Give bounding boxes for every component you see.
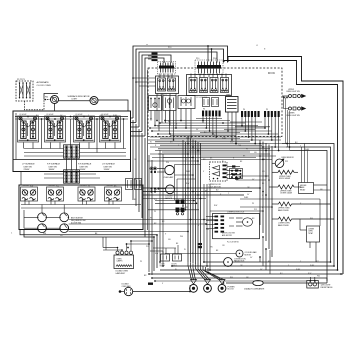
svg-text:L1 H1 H2: L1 H1 H2: [102, 114, 109, 116]
svg-text:BK: BK: [176, 243, 179, 245]
door switch DS1: [150, 250, 163, 252]
svg-text:UNIT SW: UNIT SW: [80, 166, 88, 168]
svg-text:P22: P22: [285, 161, 288, 163]
relay K6: [221, 78, 229, 93]
svg-text:P9: P9: [88, 185, 90, 187]
wire: bottom run 4: [149, 273, 343, 275]
thermal switch TH1: [21, 187, 38, 201]
svg-text:BU: BU: [134, 199, 137, 201]
svg-text:P44: P44: [206, 229, 209, 231]
svg-text:P12: P12: [186, 195, 189, 197]
svg-text:BK: BK: [216, 250, 219, 252]
svg-text:P60: P60: [317, 276, 320, 278]
alternate clock connector (dashed box): [16, 81, 33, 101]
svg-text:P9: P9: [150, 218, 152, 220]
wire: right trunk v4: [286, 147, 331, 262]
svg-text:P44: P44: [230, 277, 233, 279]
svg-text:FAN MOTOR: FAN MOTOR: [234, 260, 245, 263]
lower oven element E3: [272, 218, 279, 220]
relay K4: [200, 78, 208, 93]
svg-text:R-W: R-W: [30, 185, 34, 187]
svg-text:LAMPS: LAMPS: [117, 260, 124, 263]
upper oven lamp M4: [157, 168, 165, 170]
oven selector contact S4: [60, 224, 69, 233]
oven lamp terminals: [116, 251, 119, 254]
svg-text:P12: P12: [56, 185, 59, 187]
wires: selector to center: [69, 219, 215, 221]
svg-text:TOD 250V: TOD 250V: [48, 185, 56, 187]
surface switch enclosure box: [13, 111, 131, 172]
connector P1: [159, 66, 174, 69]
svg-text:P9: P9: [154, 211, 156, 213]
surface indicator light L2: [90, 97, 98, 105]
svg-text:UNIT SW: UNIT SW: [24, 166, 32, 168]
svg-text:P9: P9: [140, 261, 142, 263]
upper cooling fan M5: [160, 188, 166, 190]
component hidden bake relay box: [299, 183, 314, 194]
wire: right staircase outer: [228, 57, 343, 275]
svg-text:BK: BK: [262, 183, 265, 185]
svg-text:P9: P9: [146, 44, 148, 46]
connector pair P7: [176, 200, 180, 205]
svg-text:BAKE 2200W: BAKE 2200W: [278, 224, 289, 227]
svg-text:BLOCK: BLOCK: [228, 289, 235, 291]
wire: top run 1: [133, 46, 228, 118]
wire mesh: mid-right horizontals: [201, 155, 276, 157]
wire: center bundle B verticals: [259, 140, 261, 225]
upper cooling fan connector pins: [150, 187, 152, 189]
surface unit switch SW2 (RF): [45, 116, 66, 142]
svg-text:P1-9: P1-9: [168, 47, 171, 49]
wires: inter-unit verticals: [41, 119, 43, 149]
wire: light switch drops: [285, 98, 287, 144]
svg-text:UNIT SW: UNIT SW: [104, 166, 112, 168]
svg-text:ALTERNATE: ALTERNATE: [37, 81, 50, 84]
bake element E2: [272, 203, 279, 205]
svg-text:P12: P12: [316, 261, 319, 263]
wire: fan motor leads: [120, 291, 124, 293]
power terminal N: [205, 280, 211, 285]
svg-text:GY: GY: [247, 194, 250, 196]
wire: alternate box to indicator light: [25, 100, 51, 110]
oven lamp feed wires: [103, 247, 118, 249]
wire: bundle A extra verticals: [182, 140, 184, 206]
wire: bundle C verticals: [148, 155, 150, 272]
svg-text:K1: K1: [158, 76, 160, 78]
svg-text:CLOCK CONN: CLOCK CONN: [37, 85, 52, 87]
wire: center bundle A verticals: [187, 137, 189, 262]
svg-text:BR: BR: [162, 221, 165, 223]
svg-text:OVEN LIGHT SW: OVEN LIGHT SW: [286, 91, 300, 93]
svg-text:P4: P4: [243, 109, 245, 111]
wire mesh: drops from connectors: [202, 117, 204, 123]
svg-text:P34: P34: [45, 97, 48, 99]
surface unit switch SW1 (LF): [18, 116, 39, 142]
svg-text:P1 P2 P3: P1 P2 P3: [17, 79, 25, 81]
triac Q2: [163, 96, 176, 111]
svg-text:R-W: R-W: [308, 273, 312, 275]
wire: switch box top bus: [15, 116, 128, 118]
wire: top run 5: [145, 58, 164, 136]
svg-text:W: W: [184, 249, 186, 251]
svg-text:1200W: 1200W: [104, 169, 110, 171]
svg-text:R-W: R-W: [230, 142, 234, 144]
wires: TB2 side stubs: [44, 173, 64, 175]
svg-text:BK: BK: [240, 161, 243, 163]
svg-text:1: 1: [11, 233, 13, 235]
oven element E4: [269, 186, 278, 188]
svg-text:L R SURFACE: L R SURFACE: [102, 163, 115, 166]
surface switch box divider: [13, 159, 131, 161]
svg-text:OVEN LAMP: OVEN LAMP: [164, 176, 175, 179]
svg-text:P9: P9: [252, 203, 254, 205]
harness blob: [148, 283, 153, 285]
svg-text:L1: L1: [256, 45, 258, 47]
oven box right components: [126, 179, 133, 190]
pin grid small P6: [230, 169, 243, 179]
svg-text:RECEPTACLE: RECEPTACLE: [321, 286, 334, 289]
junction dots field: [164, 120, 166, 122]
power terminal L1: [191, 280, 197, 285]
relay K3: [189, 78, 197, 93]
svg-text:RELAY: RELAY: [300, 188, 306, 191]
svg-text:R-W: R-W: [154, 189, 158, 191]
svg-text:OUTER 1300W: OUTER 1300W: [280, 193, 292, 195]
svg-text:LIGHT: LIGHT: [72, 98, 78, 100]
svg-text:P2-8: P2-8: [213, 58, 216, 60]
svg-text:P9: P9: [246, 149, 248, 151]
wire: between indicator lights: [59, 100, 91, 102]
thermal switch TH4: [105, 187, 122, 201]
svg-text:P24: P24: [166, 162, 169, 164]
relay K1: [158, 78, 166, 91]
svg-text:W: W: [262, 195, 264, 197]
svg-text:OR: OR: [222, 245, 225, 247]
svg-text:V: V: [162, 283, 164, 285]
circuit breaker CB1: [226, 282, 253, 284]
svg-text:P44: P44: [186, 138, 189, 140]
svg-text:R-W: R-W: [214, 205, 218, 207]
wire: top run 3: [139, 52, 217, 127]
upper oven lamp connector pins: [150, 167, 152, 169]
surface unit switch SW4 (LR): [100, 116, 121, 142]
svg-text:BR: BR: [252, 218, 255, 220]
thermal switch TH2: [47, 187, 64, 201]
wires: grid TB1 to switches: [24, 148, 64, 150]
svg-text:1800W: 1800W: [49, 169, 55, 171]
svg-text:W: W: [222, 161, 224, 163]
svg-text:BAKE 2500W: BAKE 2500W: [278, 209, 289, 212]
svg-text:L1 H1 H2: L1 H1 H2: [47, 114, 54, 116]
wire: right staircase inner: [224, 61, 338, 271]
svg-text:K2: K2: [168, 76, 170, 78]
triac Q1: [149, 96, 162, 111]
svg-text:GN: GN: [168, 239, 171, 241]
wire: right trunk v5: [290, 151, 327, 284]
wires: switch box right edge stubs: [131, 117, 134, 119]
wire: bottom run 2: [172, 265, 334, 267]
svg-text:AND MOTOR: AND MOTOR: [222, 234, 233, 237]
svg-text:P3: P3: [203, 109, 205, 111]
wire: bundle B lower extensions: [259, 257, 261, 262]
svg-text:GY: GY: [250, 257, 253, 259]
wire: L2 to switch box: [98, 100, 128, 111]
svg-text:BK: BK: [150, 119, 153, 121]
wires: oven box to center: [143, 187, 260, 189]
svg-text:R-W: R-W: [186, 183, 190, 185]
wire: oven box internal bus: [21, 204, 141, 206]
lower oven light switch: [284, 96, 289, 109]
light receptacle: [309, 277, 311, 281]
svg-text:P5: P5: [266, 109, 268, 111]
upper door lock motor box: [210, 162, 228, 181]
svg-text:15A AUTO-BREAKER: 15A AUTO-BREAKER: [244, 288, 265, 291]
svg-text:L1 H1 H2: L1 H1 H2: [20, 114, 27, 116]
wires: TB1 to TB2 verticals: [66, 158, 68, 170]
svg-text:R R SURFACE: R R SURFACE: [78, 163, 92, 166]
relay group box K3-K6: [187, 75, 232, 96]
thermal switch TH3: [78, 187, 95, 201]
relay K5: [210, 78, 218, 93]
relay K2: [168, 78, 176, 91]
svg-text:V: V: [198, 225, 200, 227]
wires: oven box bottom exits: [20, 230, 157, 269]
svg-text:P56: P56: [43, 233, 46, 235]
svg-text:P12: P12: [154, 199, 157, 201]
svg-text:R-W: R-W: [155, 253, 159, 255]
wires: mid horizontals to left: [155, 200, 194, 202]
svg-text:L F SURFACE: L F SURFACE: [22, 163, 35, 166]
component small U2: [203, 98, 210, 107]
wire: bottom run 5: [152, 278, 327, 281]
oven section enclosure box: [19, 185, 143, 230]
wire: L1 drop to switch box: [54, 104, 56, 112]
svg-text:MOTOR: MOTOR: [245, 254, 252, 256]
svg-text:P2-1: P2-1: [196, 58, 199, 60]
wires: bundle stubs into DOC: [133, 77, 156, 79]
svg-text:DOC: DOC: [268, 71, 276, 75]
wire: bottom run 3: [160, 269, 338, 271]
svg-text:P12: P12: [238, 145, 241, 147]
svg-text:P-LOCK SW NO: P-LOCK SW NO: [227, 241, 240, 243]
DOC control dashed enclosure: [148, 68, 282, 137]
svg-text:V: V: [203, 171, 205, 173]
relay K7: [178, 96, 195, 109]
component small U3: [212, 98, 219, 107]
svg-text:LAMP ASSY: LAMP ASSY: [116, 272, 126, 275]
svg-text:P12: P12: [146, 246, 149, 248]
svg-text:TSTAT: TSTAT: [308, 232, 313, 235]
svg-text:GN: GN: [262, 171, 265, 173]
surface indicator light L1: [51, 96, 59, 104]
oven selector contact S3: [38, 224, 47, 233]
connector P2: [197, 65, 221, 69]
transformer T1: [226, 97, 239, 113]
surface unit switch SW3 (RR): [74, 116, 95, 142]
wire: door lock stubs: [227, 166, 240, 168]
wire: left bundle verticals: [132, 120, 134, 200]
wire mesh: lower-left staircase: [150, 153, 188, 155]
svg-text:P12: P12: [254, 209, 257, 211]
svg-text:2350W: 2350W: [24, 169, 30, 171]
svg-text:OVEN LIGHT SW: OVEN LIGHT SW: [286, 115, 300, 117]
broil element E1: [272, 171, 278, 173]
svg-text:V: V: [165, 234, 167, 236]
svg-text:R: R: [262, 207, 264, 209]
wires: selector contacts: [46, 216, 59, 218]
wire mesh: distribution field horizontals: [165, 120, 230, 122]
svg-text:BR: BR: [144, 275, 147, 277]
wire: right trunk v3: [282, 144, 334, 267]
oven selector contact S1: [38, 213, 47, 222]
wire: top run 2: [136, 49, 224, 123]
svg-text:GN: GN: [210, 247, 213, 249]
svg-text:L1 H1 H2: L1 H1 H2: [76, 114, 83, 116]
svg-text:P9: P9: [186, 207, 188, 209]
wire: lower lock stubs: [206, 216, 215, 218]
wire: door lock drop bundle: [203, 184, 205, 262]
upper door lock pins: [223, 165, 227, 167]
wires: power block fan-in: [188, 262, 192, 280]
oven temperature sensor: [272, 162, 275, 164]
svg-text:BROIL 3400W: BROIL 3400W: [279, 178, 290, 180]
cooling fan motor M2: [165, 253, 236, 255]
svg-text:P57: P57: [60, 235, 63, 237]
lower oven control box: [307, 226, 320, 242]
connector blobs on harness: [198, 243, 203, 245]
oven selector contact S2: [60, 213, 69, 222]
svg-text:1200W: 1200W: [80, 169, 86, 171]
svg-text:N: N: [264, 48, 266, 50]
connector pin stack: [152, 53, 158, 55]
svg-text:UNIT SW: UNIT SW: [49, 166, 57, 168]
oven lamp box: [114, 255, 134, 269]
terminal grid TB2: [64, 170, 80, 183]
lower door lock motor: [243, 218, 253, 226]
connector pair P8: [176, 208, 180, 213]
lower door lock pin stack: [215, 216, 219, 218]
svg-text:P44: P44: [310, 218, 313, 220]
wire: receptacle feed: [155, 280, 307, 282]
wire: L1 left feed: [44, 94, 58, 100]
upper oven light switch: [282, 95, 289, 97]
svg-text:P44: P44: [262, 159, 265, 161]
terminal grid TB1: [64, 145, 80, 158]
svg-text:TOD 250V: TOD 250V: [22, 185, 30, 187]
svg-text:TOD 250V: TOD 250V: [80, 185, 88, 187]
svg-text:OVEN SENSOR: OVEN SENSOR: [281, 157, 294, 159]
lower door lock assembly box: [213, 214, 260, 239]
power terminal L2: [219, 280, 225, 285]
svg-text:OR: OR: [134, 159, 137, 161]
svg-text:R F SURFACE: R F SURFACE: [47, 163, 61, 166]
svg-text:P44: P44: [180, 236, 183, 238]
convection fan motor M3: [203, 261, 224, 263]
svg-text:TOD 250V: TOD 250V: [106, 185, 114, 187]
relay group box K1-K2: [156, 76, 179, 94]
door switch DS2: [174, 248, 176, 254]
wire: top run 4: [142, 55, 171, 132]
junction dots lower field: [156, 234, 158, 236]
